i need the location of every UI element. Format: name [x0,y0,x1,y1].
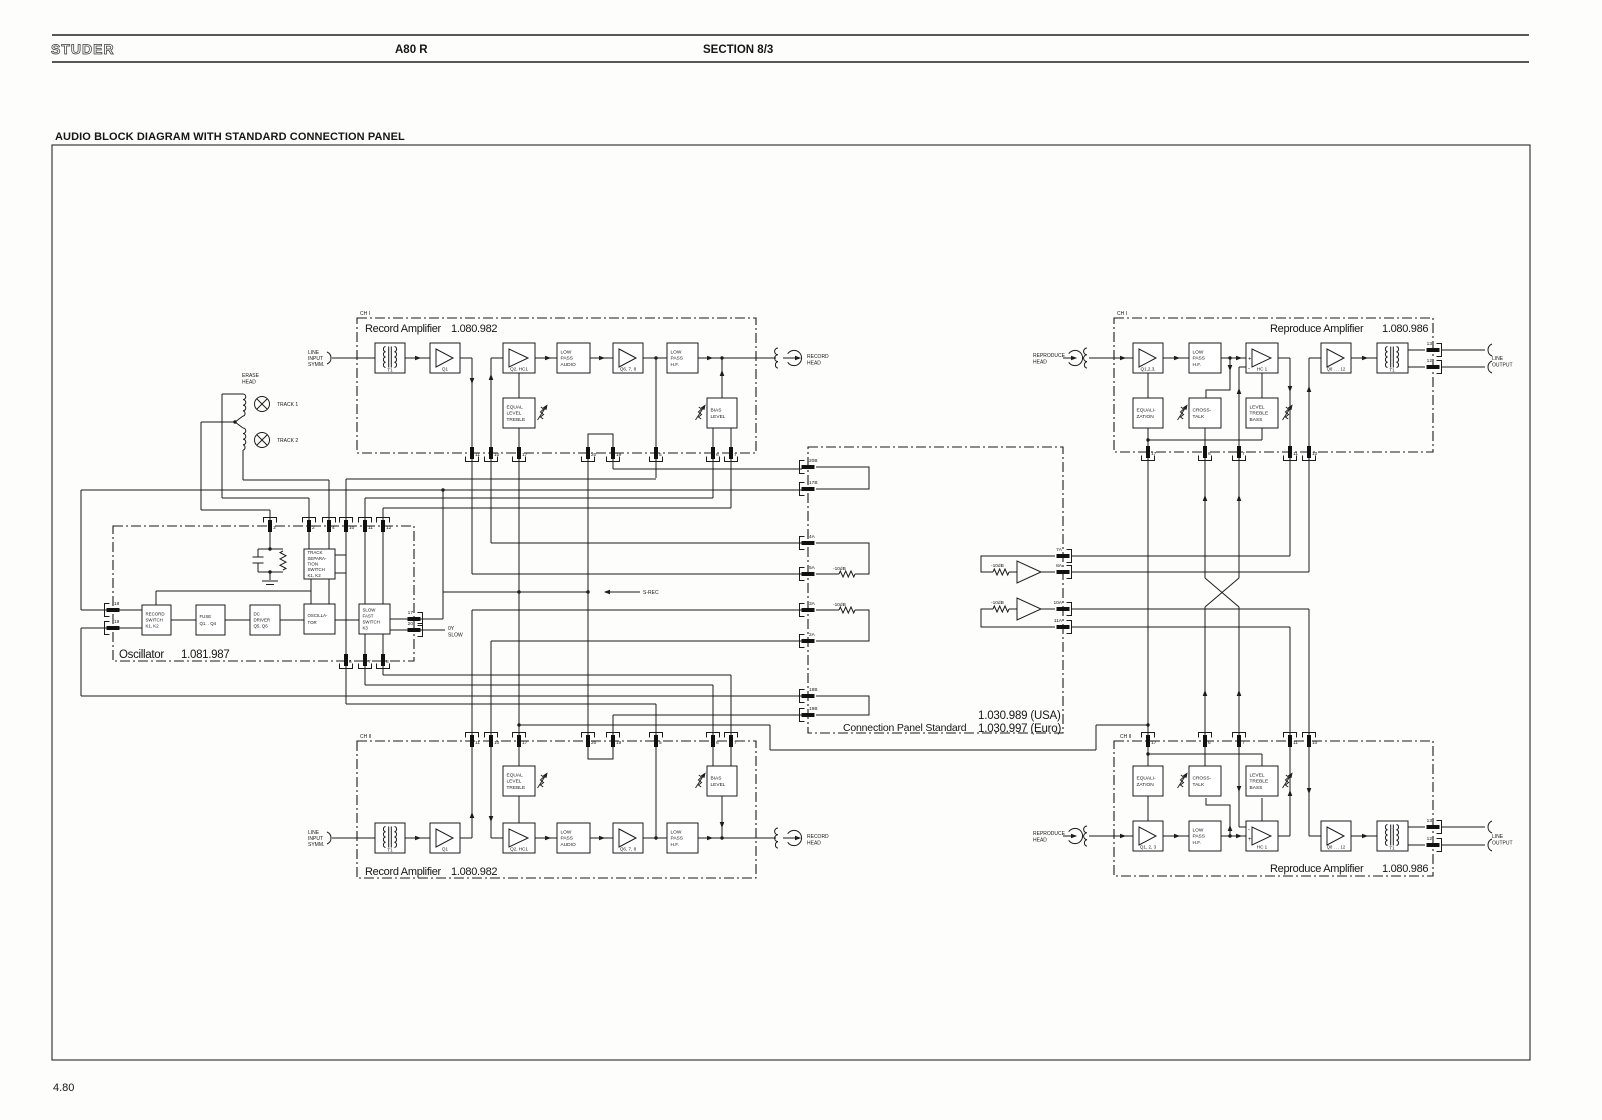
jumper 4A-5A with attenuator [816,543,869,574]
wire oscillator pin 11 column [364,498,366,604]
equalization reproduce CH I [1133,398,1163,428]
wire panel 11A to reproduce CH II pin 11 [1071,626,1290,628]
wire T1 to Q1 CH I [405,357,430,359]
wire oscillator pin 18 lead [81,609,142,611]
wire pin 10 to Q2 CH II [491,837,503,839]
wire low pass audio to Q6,7,8 [590,357,613,359]
svg-text:Connection Panel Standard: Connection Panel Standard [843,722,967,734]
connector pin 12 line output CH I [1427,358,1442,374]
junction tank top [268,547,271,550]
wire pin 10 column CH II record [490,641,492,838]
wire level treble bass bottom to pin 17 node CH I [1148,428,1262,440]
svg-text:11A: 11A [1054,618,1063,624]
wire bus down to oscillator pin 18 [80,490,82,610]
wire record CH I pin 19 to panel 20B [613,453,802,469]
connector pin 17B connection panel [800,480,818,496]
svg-text:S-REC: S-REC [643,590,659,596]
svg-text:-10dB: -10dB [833,602,846,608]
connector pin 17 reproduce amplifier CH II [1142,733,1157,748]
svg-text:1.080.986: 1.080.986 [1382,863,1428,875]
wire line input to T1 CH I [332,357,375,359]
record head arrow CH II [795,836,801,841]
wire crossover through pin 7 to HC1 minus CH II [1239,607,1246,827]
svg-text:7: 7 [368,659,371,665]
wire record CH I pin 11 to panel 5A [472,573,802,575]
svg-text:17: 17 [1151,740,1157,746]
wire oscillator pin 6 to record CH II pin 5 [346,703,656,705]
svg-text:Reproduce Amplifier: Reproduce Amplifier [1270,323,1364,335]
connector pin 7 record amplifier CH II [725,733,738,748]
junction bias injection CH I [720,356,723,359]
svg-text:12: 12 [386,525,392,531]
svg-text:11: 11 [475,452,480,458]
wire equal level treble to Q2 CH II [518,796,520,823]
connector pin 17 record amplifier CH I [513,447,528,462]
connector pin 8 oscillator bottom [377,654,390,669]
jumper 18B-19B [816,696,869,715]
wire track switch to oscillator block right [328,579,330,604]
reproduce head arrow line CH II [1063,835,1073,837]
svg-text:ZATION: ZATION [1137,782,1155,788]
svg-text:K3: K3 [363,625,369,630]
svg-text:FUSE: FUSE [200,614,212,619]
svg-text:T1: T1 [1389,846,1395,851]
svg-text:CH II: CH II [1120,734,1131,740]
flow arrow T1 to Q1 CH II [415,836,421,841]
connector pin 12 oscillator top [377,518,392,533]
connector pin 13 line output CH II [1427,818,1442,834]
wire T1 to pin 13 CH II [1408,826,1425,828]
svg-text:+: + [1248,357,1252,363]
svg-text:PASS: PASS [561,836,573,842]
T1 reproduce CH I windings [1385,347,1398,368]
svg-text:13: 13 [1427,341,1433,347]
svg-text:17B: 17B [809,480,818,486]
wire T1 to pin 12 CH II [1408,844,1425,846]
svg-text:LEVEL: LEVEL [1250,404,1265,410]
tank capacitor plates [253,557,264,563]
connector pin 6 reproduce amplifier CH I [1199,446,1212,461]
svg-text:Q1: Q1 [442,367,449,372]
connector pin 5A connection panel [800,565,816,581]
svg-text:Q5, Q6: Q5, Q6 [254,624,269,629]
svg-text:7: 7 [1242,451,1245,457]
amplifier Q8-12 reproduce CH I [1321,343,1351,373]
flow arrow down into crosstalk CH I [1228,365,1233,371]
svg-text:1.081.987: 1.081.987 [181,649,229,661]
Connection Panel module border [808,447,1063,733]
svg-text:4.80: 4.80 [53,1082,74,1094]
wire bias level to record line CH I [721,358,723,398]
connector pin 18B connection panel [800,687,818,703]
svg-text:RECORD: RECORD [807,354,829,360]
svg-text:TRACK: TRACK [308,550,323,555]
flow arrow into low pass HF reproduce CH II [1174,834,1180,839]
attenuator -10dB on 5A [839,571,855,577]
svg-text:HEAD: HEAD [242,380,256,386]
svg-text:Q1, 2, 3: Q1, 2, 3 [1140,845,1157,850]
amplifier Q1 2 3 reproduce CH II [1133,821,1163,851]
amplifier Q8-12 reproduce CH II [1321,821,1351,851]
svg-text:LEVEL: LEVEL [507,411,522,417]
jumper loop pins 20-19 record CH II [588,715,613,759]
record head flux arrow line CH II [783,837,797,839]
connector pin 19B connection panel [800,706,818,722]
junction record line tap to pin 5 CH II [654,836,657,839]
diagram frame [52,145,1530,1060]
flow arrow up into HC1 minus CH I [1237,388,1242,394]
svg-text:8: 8 [386,659,389,665]
svg-text:TREBLE: TREBLE [1250,779,1269,785]
wire HC1 out CH II [1278,835,1290,837]
wire equalization to Q123 CH II [1147,796,1149,821]
svg-text:+: + [1248,837,1252,843]
crosstalk tap zig CH I [1206,358,1230,398]
flow arrow T1 to Q1 [415,356,421,361]
svg-text:1.030.989 (USA): 1.030.989 (USA) [978,710,1061,722]
wire bias pin 6 column CH II to oscillator pin 7 line [712,685,714,766]
svg-text:1.080.982: 1.080.982 [451,866,497,878]
junction bias injection CH II [720,836,723,839]
potentiometer crosstalk CH I [1178,403,1190,420]
svg-text:H.F.: H.F. [1193,840,1202,846]
wire pin 12 to line output CH II [1441,844,1485,846]
connector pin 19 oscillator [105,619,120,635]
svg-text:H.F.: H.F. [671,362,680,368]
panel buffer amp CH II [981,609,1055,627]
svg-text:AUDIO: AUDIO [561,362,576,368]
svg-text:5: 5 [659,740,662,746]
svg-text:18B: 18B [809,687,818,693]
tank resistor [280,551,286,570]
svg-text:LOW: LOW [671,349,682,355]
stub track switch to pin6 column lower [335,572,346,574]
svg-text:AUDIO BLOCK DIAGRAM WITH STAND: AUDIO BLOCK DIAGRAM WITH STANDARD CONNEC… [55,131,405,143]
svg-text:11: 11 [1293,740,1298,746]
connector pin 2 oscillator top [303,518,316,533]
svg-text:LEVEL: LEVEL [507,779,522,785]
svg-text:10: 10 [1312,740,1318,746]
wire reproduce head to Q123 CH II [1089,835,1133,837]
wire T1 to pin 12 CH I [1408,366,1425,368]
wire pin 17 column reproduce CH I to CH II equalization [1147,452,1149,766]
low pass audio filter CH II [557,823,590,853]
connector pin 17 oscillator [408,610,423,626]
flow arrow up from pin 10 [489,374,494,380]
connector pin 7 reproduce amplifier CH I [1233,446,1246,461]
wire Q2 to low pass audio [535,357,557,359]
junction equalizer line reproduce CH II [1146,723,1149,726]
svg-text:10: 10 [494,740,500,746]
svg-text:Q6, 7, 8: Q6, 7, 8 [620,367,637,372]
svg-text:6: 6 [1208,451,1211,457]
svg-text:EQUALI-: EQUALI- [1137,775,1157,781]
flow arrow into Q123 CH I [1120,356,1126,361]
panel amp triangle CH II [1017,598,1041,620]
connector pin 7A connection panel [1056,547,1071,563]
svg-text:19: 19 [114,619,120,625]
low pass audio filter CH I [557,343,590,373]
connector pin 10 reproduce amplifier CH II [1303,733,1318,748]
svg-text:Q2, HC1: Q2, HC1 [510,847,528,852]
reproduce head arrow line CH I [1063,357,1073,359]
reproduce head arrow CH II [1071,834,1077,839]
level treble bass adjust CH II [1246,766,1278,796]
wire pin 10 column CH I record [490,358,492,543]
line input CH I connector symbol [327,352,331,364]
equalization reproduce CH II [1133,766,1163,796]
svg-text:13: 13 [1427,818,1433,824]
dc driver Q5 Q6 [250,605,280,635]
flow arrow into low pass audio CH II [545,836,551,841]
svg-text:2: 2 [312,525,315,531]
wire crosstalk CH I out through pin 6 [1204,428,1206,578]
svg-text:19B: 19B [809,706,818,712]
potentiometer crosstalk CH II [1178,771,1190,788]
svg-text:Q1: Q1 [442,847,449,852]
svg-text:HC 1: HC 1 [1257,367,1268,372]
bias level adjust CH I [707,398,737,428]
equal level treble adjust CH I [503,398,535,428]
wire level treble bass top feed CH II [1148,754,1262,766]
Oscillator module border [113,526,414,661]
equal level treble adjust CH II [503,766,535,796]
svg-text:TREBLE: TREBLE [507,785,526,791]
connector pin 20 record amplifier CH I [582,447,597,462]
wire T1 to pin 13 CH I [1408,349,1425,351]
T1 reproduce CH II windings [1385,825,1398,846]
flow arrow down from pin 10 reproduce CH II [1307,788,1312,794]
wire oscillator pin 8 column [382,634,384,675]
flow arrow down from pin 10 CH II [489,816,494,822]
svg-text:10: 10 [494,452,500,458]
svg-text:HEAD: HEAD [807,841,821,847]
flow arrow into T1 reproduce CH II [1362,834,1368,839]
svg-text:T1: T1 [387,368,393,373]
potentiometer equal level treble CH II [538,771,550,788]
junction S-REC / pin17 column [517,590,520,593]
svg-text:SWITCH: SWITCH [363,620,380,625]
svg-text:TALK: TALK [1193,782,1205,788]
svg-text:OSCILLA-: OSCILLA- [308,613,329,618]
svg-text:TOR: TOR [308,620,317,625]
wire Q123 to low pass HF CH I [1163,357,1189,359]
wire oscillator pin 7 to record CH II pin 6 [365,684,713,686]
junction equalization feed CH I [1146,438,1149,441]
amplifier Q1 record CH II [430,823,460,853]
flow arrow into low pass audio [545,356,551,361]
wire oscillator pin 12 to record CH I pin 7 [383,507,731,509]
Record Amplifier CH II module border [357,741,756,878]
svg-text:LOW: LOW [1193,349,1204,355]
svg-text:HEAD: HEAD [1033,360,1047,366]
svg-text:SYMM.: SYMM. [308,842,324,848]
svg-text:RECORD: RECORD [146,611,165,616]
flow arrow into low pass HF reproduce CH I [1174,356,1180,361]
wire oscillator pin 19 lead [81,627,142,629]
svg-text:A80 R: A80 R [395,44,428,56]
panel amp triangle CH I [1017,561,1041,583]
svg-text:LINE: LINE [1492,834,1504,840]
wire bias level to record line CH II [721,796,723,838]
wire oscillator pin 10 to record CH I pin 5 [346,478,656,480]
svg-text:SECTION 8/3: SECTION 8/3 [703,44,773,56]
svg-text:HEAD: HEAD [1033,838,1047,844]
flow arrow up crosstalk column left CH II [1203,690,1208,696]
wire record CH I pin 10 to panel 4A [491,542,802,544]
low pass HF reproduce CH II [1189,821,1221,851]
svg-text:-: - [1248,827,1250,833]
svg-text:6: 6 [349,659,352,665]
svg-text:17: 17 [408,610,414,616]
slow fast switch K3 [359,604,390,634]
flow arrow into HC1 plus CH I [1236,356,1242,361]
reproduce head arrow CH I [1071,356,1077,361]
wire oscillator pin 12 column [382,508,384,604]
svg-text:EQUAL: EQUAL [507,772,524,778]
svg-text:12: 12 [1427,836,1433,842]
S-REC direction arrow [604,590,610,595]
wire Q2 to equal level treble [518,373,520,398]
svg-text:7: 7 [734,452,737,458]
svg-text:DRIVER: DRIVER [254,618,271,623]
wire HC1 out CH I [1278,357,1290,359]
svg-text:1.080.982: 1.080.982 [451,323,497,335]
wire record switch to track switch column [156,591,311,605]
wire bias level pin 6 column CH I [712,428,714,498]
line output connector CH I [1488,344,1492,373]
svg-text:TREBLE: TREBLE [1250,411,1269,417]
svg-text:Reproduce Amplifier: Reproduce Amplifier [1270,863,1364,875]
reproduce head coil CH II [1084,826,1087,846]
svg-text:-10dB: -10dB [833,566,846,572]
svg-text:LEVEL: LEVEL [711,782,726,788]
junction bus / oscillator pin 17 [441,488,444,491]
svg-text:EQUALI-: EQUALI- [1137,407,1157,413]
svg-text:3: 3 [273,525,276,531]
flow arrow up to pin 11 reproduce CH II [1288,790,1293,796]
panel buffer amp CH I [981,556,1055,572]
flow arrow bias down CH II [720,822,725,828]
svg-text:LOW: LOW [671,829,682,835]
svg-text:10: 10 [1312,451,1318,457]
potentiometer bias level CH II [696,771,708,788]
wire pin 10 to Q2 [491,357,503,359]
svg-text:T1: T1 [387,848,393,853]
svg-text:6: 6 [716,740,719,746]
svg-text:REPRODUCE: REPRODUCE [1033,831,1066,837]
wire Q678 to low pass HF CH II [643,837,667,839]
svg-text:T1: T1 [1389,368,1395,373]
amplifier Q1 record CH I [430,343,460,373]
wire pin 10 to Q8 CH II [1309,835,1321,837]
svg-text:11: 11 [475,740,480,746]
wire oscillator pin10/pin6 column [345,479,347,704]
flow arrow into Q678 [599,356,605,361]
svg-text:TALK: TALK [1193,414,1205,420]
connector pin 6 oscillator bottom [340,654,353,669]
junction S-REC branch on pin17 column [517,723,520,726]
wire bias pin 7 column CH II to oscillator pin 8 line [730,675,732,766]
ground symbol [262,581,278,585]
wire low pass HF to HC1 CH II [1221,835,1246,837]
svg-text:20: 20 [591,452,597,458]
connector pin 18 oscillator [105,601,120,617]
svg-text:7A: 7A [1056,547,1063,553]
svg-text:Q8 . . . 12: Q8 . . . 12 [1327,845,1346,850]
connector pin 5 record amplifier CH I [650,447,663,462]
connector pin 10 record amplifier CH I [485,447,500,462]
wire 8A through pin 10 to Q8 input CH I [1308,358,1310,572]
flow arrow up from pin 10 reproduce CH I [1307,386,1312,392]
svg-text:Q1,2,3,: Q1,2,3, [1140,367,1155,372]
oscillator block [304,604,335,634]
wire pin 20 bus record CH I to CH II [587,434,589,759]
wire equalization to pin 17 CH I [1147,428,1149,452]
wire 10A through pin 10 to Q8 input CH II [1308,609,1310,836]
wire tank to ground [269,572,271,580]
connector pin 7 oscillator bottom [359,654,372,669]
wire low pass audio to Q678 CH II [590,837,613,839]
connector pin 6 record amplifier CH II [707,733,720,748]
wire fuse to dc driver [225,619,250,621]
svg-text:10: 10 [349,525,355,531]
svg-text:LOW: LOW [561,829,572,835]
junction tank bottom [268,570,271,573]
flow arrow into Q678 CH II [599,836,605,841]
svg-text:CH I: CH I [1117,311,1127,317]
connector pin 19 record amplifier CH I [607,447,622,462]
flow arrow up crosstalk column left CH I [1203,495,1208,501]
stub track switch to pin10 column upper [335,554,346,556]
record head CH I [788,350,802,365]
potentiometer bias level CH I [696,403,708,420]
wire erase coil bottom to oscillator pin 4 [243,450,329,480]
svg-text:-10dB: -10dB [991,563,1004,569]
svg-text:4: 4 [332,525,335,531]
svg-text:LOW: LOW [561,349,572,355]
wire HC1 minus input through pin 7 CH I [1239,367,1246,578]
flow arrow down to pin 11 [470,378,475,384]
flow arrow up pin7 column CH II [1237,690,1242,696]
jumper 3A-2A with attenuator [816,610,869,641]
wire Q123 to low pass HF CH II [1163,835,1189,837]
svg-text:OUTPUT: OUTPUT [1492,363,1513,369]
flow arrow into Q123 CH II [1120,834,1126,839]
wire panel 10A to reproduce CH II pin 10 [1071,608,1309,610]
svg-text:PASS: PASS [1193,834,1205,840]
flow arrow to record head [707,356,713,361]
wire low pass HF to HC1 CH I [1221,357,1246,359]
svg-text:18: 18 [114,601,120,607]
amplifier Q2 HC1 record CH I [503,343,535,373]
potentiometer equal level treble CH I [538,403,550,420]
wire slow fast switch to pin 20 / 0V slow [390,629,445,631]
svg-text:PASS: PASS [671,836,683,842]
svg-text:CH I: CH I [360,311,370,317]
svg-text:FAST: FAST [363,614,374,619]
trace 2 symbol [255,433,270,448]
wire oscillator pin 3 column to tank [269,510,271,549]
connector pin 19 record amplifier CH II [607,733,622,748]
svg-text:TION: TION [308,562,319,567]
wire erase coil top to oscillator pin 2 [222,394,309,498]
wire record CH II pin 11 to panel 3A [472,609,802,611]
svg-text:Record Amplifier: Record Amplifier [365,866,442,878]
attenuator -10dB on 3A [839,607,855,613]
low pass HF filter CH II [667,823,698,853]
transformer T1 record CH I [375,343,405,373]
